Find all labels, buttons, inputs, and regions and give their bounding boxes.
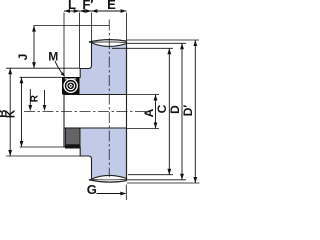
- top extension line body left: [90, 13, 92, 43]
- D' arrows: [193, 40, 197, 183]
- B arrows: [8, 68, 12, 156]
- svg-text:A: A: [142, 108, 156, 117]
- right ext line groove bottom low (C): [128, 174, 173, 176]
- svg-text:E: E: [107, 0, 116, 12]
- set screw socket diamond: [69, 83, 73, 88]
- svg-text:J: J: [16, 54, 30, 61]
- set screw body ring: [67, 82, 75, 90]
- G dimension line: [97, 193, 126, 195]
- bore bottom edge line: [64, 127, 127, 129]
- ext line collar bottom left: [6, 155, 80, 157]
- ext line OD-top reference: [34, 25, 110, 27]
- dimension R arrows: [28, 105, 46, 111]
- svg-text:M: M: [48, 49, 58, 63]
- svg-text:D: D: [168, 105, 182, 114]
- rim side edge bottom-left: [91, 179, 93, 180]
- top dim arrows at hub face: [64, 9, 80, 13]
- set screw (end view): black body: [62, 77, 80, 95]
- dimension D line: [181, 43, 183, 180]
- groove visible far-edge arc (bottom): [89, 180, 127, 182]
- right ext line groove edge low (D): [127, 179, 186, 181]
- C arrows: [167, 48, 171, 174]
- top extension line body right: [126, 13, 128, 42]
- top dim arrows E: [91, 9, 126, 13]
- dimension D' line: [194, 40, 196, 183]
- ext line collar top left: [6, 67, 80, 69]
- right ext line groove bottom (C): [112, 47, 173, 49]
- set screw outer thread ring: [64, 79, 77, 92]
- dimension J line: [33, 26, 35, 69]
- right ext line groove edge (D): [127, 42, 186, 44]
- body right face across bore: [126, 41, 128, 180]
- svg-text:K: K: [5, 109, 17, 118]
- bore top edge line: [64, 94, 127, 96]
- right ext line bore top: [127, 94, 160, 96]
- top extension line collar face: [79, 13, 81, 69]
- horizontal centerline (axis): [24, 111, 150, 113]
- top dimension line: [64, 10, 127, 12]
- svg-text:L: L: [68, 0, 76, 12]
- dimension B line: [9, 68, 11, 156]
- set screw (side view, bottom): grey body: [66, 128, 81, 148]
- ext line hub top left: [20, 76, 63, 78]
- svg-text:R: R: [30, 94, 41, 102]
- M leader line: [55, 61, 64, 76]
- dimension A line: [155, 95, 157, 129]
- svg-text:G: G: [87, 182, 97, 197]
- top extension line hub face: [63, 13, 65, 77]
- right ext line OD (D'): [127, 39, 199, 41]
- vertical groove centerline: [108, 20, 110, 178]
- R right line: [29, 89, 31, 106]
- groove middle arc bottom: [89, 178, 126, 181]
- groove visible far-edge arc (top): [89, 40, 127, 42]
- A arrows: [154, 95, 158, 129]
- groove middle arc top: [89, 41, 126, 44]
- rim side edge top-left: [91, 42, 93, 43]
- right ext line OD low (D'): [127, 182, 200, 184]
- svg-text:C: C: [155, 104, 169, 113]
- K arrows: [20, 77, 24, 147]
- pulley body section fill (upper half): [64, 43, 127, 95]
- dimension K line: [21, 77, 23, 147]
- top dim arrows at collar step: [80, 9, 92, 13]
- dimension C line: [168, 48, 170, 174]
- J arrows: [32, 26, 36, 69]
- set screw socket center: [70, 85, 72, 87]
- pulley body section fill (lower half): [64, 128, 127, 179]
- set screw tip band: [65, 144, 80, 148]
- svg-text:D′: D′: [181, 105, 195, 117]
- right ext line bore bottom: [127, 128, 160, 130]
- rim side edge top-right: [126, 41, 128, 43]
- G extension line: [125, 185, 127, 201]
- svg-text:F′: F′: [82, 0, 93, 12]
- hub left face across bore: [63, 78, 65, 148]
- rim side edge bottom-right: [126, 178, 128, 180]
- D arrows: [180, 43, 184, 180]
- thread relief dashes: [65, 78, 77, 80]
- ext line hub bottom left: [20, 146, 66, 148]
